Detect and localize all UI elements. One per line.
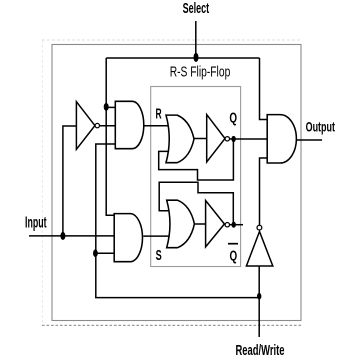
junction dot: select tap bbox=[194, 53, 199, 62]
svg-text:S: S bbox=[156, 247, 162, 264]
svg-text:Read/Write: Read/Write bbox=[236, 342, 285, 359]
wire: read/write vertical main bbox=[258, 266, 260, 337]
wire: read/write to output AND via inverter bbox=[260, 158, 268, 225]
inverter read/write (pointing up) bbox=[246, 232, 272, 267]
wire: read/write stub to bottom AND bbox=[96, 252, 115, 254]
bubble of top inverter (Q) bbox=[225, 137, 229, 141]
wire: output line bbox=[296, 139, 322, 141]
wire: bottom OR output to inverter bbox=[194, 223, 205, 225]
bubble of left inverter bbox=[95, 123, 99, 127]
wire: top AND output to R OR gate bbox=[144, 125, 169, 127]
junction dot: Q node bbox=[231, 136, 235, 142]
inverter left (input NOT) bbox=[76, 102, 95, 150]
AND gate top-left (R input) bbox=[115, 101, 143, 148]
dashed boundary line (top, faint) bbox=[42, 39, 302, 41]
wire: select right leg to output AND bbox=[260, 58, 268, 120]
wire: Input line bbox=[29, 235, 115, 237]
junction dot: input riser bbox=[60, 232, 65, 240]
svg-text:Input: Input bbox=[25, 213, 47, 232]
svg-text:Output: Output bbox=[306, 120, 335, 135]
svg-text:R-S Flip-Flop: R-S Flip-Flop bbox=[170, 64, 231, 80]
junction dot: Q-bar node bbox=[232, 222, 236, 228]
inverter after S OR gate bbox=[206, 201, 225, 247]
R-S flip-flop inner box bbox=[151, 87, 241, 267]
wire: inverter output to top AND bbox=[100, 125, 116, 127]
wire: Q line to output AND bbox=[229, 138, 267, 140]
wire: read/write riser bbox=[96, 144, 259, 298]
OR gate R (top) bbox=[166, 115, 194, 163]
wire: bottom AND output to S OR gate bbox=[143, 235, 168, 237]
svg-text:Q: Q bbox=[229, 110, 237, 126]
junction dot: read/write bottom bbox=[257, 293, 261, 300]
AND gate output (right) bbox=[267, 115, 296, 163]
wire: input riser to inverter bbox=[63, 126, 77, 236]
wire: top OR output to inverter bbox=[194, 138, 207, 140]
wire: Q feedback staircase bbox=[159, 139, 234, 180]
wire: Q-bar stub bbox=[230, 224, 244, 226]
wire: Q-bar feedback staircase bbox=[159, 182, 233, 224]
wire: select left riser to AND gates bbox=[106, 58, 114, 215]
AND gate bottom-left (S input) bbox=[114, 214, 142, 262]
junction dot: select/top-AND bbox=[104, 103, 109, 111]
inverter after R OR gate bbox=[207, 115, 225, 162]
overline of Q-bar bbox=[228, 243, 238, 245]
memory cell outer boundary box bbox=[52, 45, 301, 321]
junction dot: read/write riser to S AND bbox=[93, 249, 98, 257]
dashed boundary line (bottom) bbox=[42, 324, 302, 326]
dashed boundary line (left, faint) bbox=[41, 40, 43, 325]
bubble of read/write inverter bbox=[257, 225, 262, 230]
svg-text:R: R bbox=[156, 105, 162, 122]
svg-text:Select: Select bbox=[183, 0, 210, 16]
svg-text:Q: Q bbox=[229, 247, 237, 263]
wire: Select vertical lead bbox=[195, 21, 197, 58]
bubble of bottom inverter (Q-bar) bbox=[225, 223, 229, 227]
wire: select stub to top AND bbox=[106, 106, 116, 108]
OR gate S (bottom) bbox=[167, 200, 195, 248]
wire: select horizontal bus bbox=[106, 57, 259, 59]
